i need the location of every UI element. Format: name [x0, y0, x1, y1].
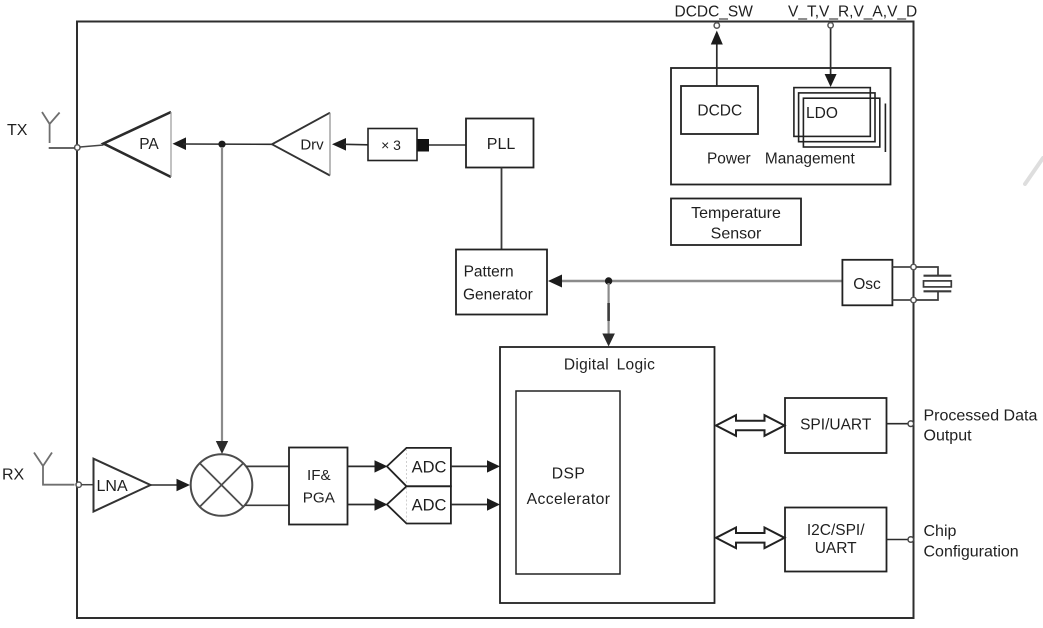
- wire RX port to LNA: [82, 484, 94, 486]
- wire V pins to LDO: [830, 28, 832, 75]
- Digital Logic box: [500, 347, 715, 603]
- output port circle: [908, 421, 914, 427]
- arrow into PA: [173, 137, 187, 150]
- junction node: [218, 141, 225, 148]
- svg-text:I2C/SPI/: I2C/SPI/: [807, 522, 865, 539]
- svg-text:Generator: Generator: [463, 287, 533, 304]
- svg-text:Power Management: Power Management: [707, 151, 855, 168]
- wire DCDC to DCDC_SW pin: [716, 44, 718, 86]
- wire TX port to PA: [80, 145, 104, 147]
- Temperature Sensor box: [671, 199, 801, 246]
- wire Osc to Pattern Generator: [559, 280, 842, 282]
- wire junction down to Digital Logic: [607, 283, 609, 335]
- wire ADC1 to Digital Logic: [451, 465, 489, 467]
- svg-text:RX: RX: [2, 467, 25, 484]
- wire ADC2 to Digital Logic: [451, 504, 489, 506]
- wire IF PGA to ADC2: [348, 504, 378, 506]
- op-amp PA: [104, 112, 172, 177]
- DCDC box: [681, 86, 758, 134]
- Osc box: [842, 260, 892, 306]
- svg-text:Configuration: Configuration: [924, 544, 1019, 561]
- junction node on Osc wire: [605, 277, 612, 284]
- svg-text:LDO: LDO: [806, 105, 838, 122]
- crystal X1: [916, 267, 951, 300]
- svg-text:Temperature: Temperature: [691, 205, 781, 222]
- op-amp Drv: [272, 113, 330, 176]
- svg-text:UART: UART: [815, 540, 857, 557]
- wire I2C/SPI/UART to config port: [887, 539, 909, 541]
- ADC 2: [387, 486, 451, 523]
- Power Management box: [671, 68, 891, 185]
- I2C/SPI/UART box: [785, 508, 887, 572]
- wire antenna to TX port: [49, 147, 75, 149]
- faint smudge mark: [1025, 158, 1043, 184]
- svg-text:DSP: DSP: [552, 465, 585, 482]
- svg-text:LNA: LNA: [97, 478, 128, 495]
- IF PGA box: [289, 448, 348, 525]
- ADC 1: [387, 448, 451, 486]
- Osc stub bottom: [893, 299, 911, 301]
- multiplier x3 box: [368, 129, 417, 161]
- svg-text:Output: Output: [924, 428, 973, 445]
- wire Drv to PA: [183, 143, 272, 145]
- wire PLL to Pattern Generator: [501, 168, 503, 250]
- DSP Accelerator box: [516, 391, 620, 574]
- svg-text:Drv: Drv: [300, 137, 324, 154]
- wire junction down to mixer: [221, 147, 223, 443]
- svg-text:Digital Logic: Digital Logic: [564, 357, 655, 374]
- wire square to PLL: [429, 144, 466, 146]
- config port circle: [908, 537, 914, 543]
- arrow into Digital Logic: [602, 334, 615, 347]
- arrow LNA to mixer: [151, 484, 179, 486]
- chip boundary: [77, 22, 914, 619]
- svg-text:PGA: PGA: [303, 489, 336, 506]
- wire mixer to IF PGA (I): [246, 465, 289, 467]
- wire SPI/UART to output port: [887, 423, 909, 425]
- svg-text:Accelerator: Accelerator: [527, 491, 611, 508]
- svg-text:× 3: × 3: [381, 137, 401, 153]
- svg-text:Processed Data: Processed Data: [924, 408, 1038, 425]
- svg-text:DCDC: DCDC: [697, 103, 742, 120]
- DCDC_SW port circle: [714, 23, 719, 28]
- svg-text:IF&: IF&: [307, 467, 331, 484]
- svg-text:PLL: PLL: [487, 136, 516, 153]
- arrow x3 to Drv: [332, 138, 346, 151]
- svg-text:DCDC_SW: DCDC_SW: [675, 4, 754, 21]
- Osc stub top: [893, 266, 911, 268]
- Osc port circle bottom: [911, 297, 916, 302]
- Osc port circle top: [911, 264, 916, 269]
- svg-text:SPI/UART: SPI/UART: [800, 417, 872, 434]
- svg-text:PA: PA: [139, 136, 159, 153]
- svg-text:V_T,V_R,V_A,V_D: V_T,V_R,V_A,V_D: [788, 4, 917, 21]
- svg-text:Chip: Chip: [924, 523, 957, 540]
- op-amp LNA: [94, 459, 151, 512]
- double arrow DL to SPI/UART: [716, 415, 785, 436]
- RX antenna: [34, 453, 75, 485]
- arrow into Pattern Generator: [548, 275, 562, 288]
- RX port circle: [76, 482, 81, 487]
- arrow into mixer top: [216, 441, 228, 454]
- svg-text:Pattern: Pattern: [464, 264, 514, 281]
- svg-text:TX: TX: [7, 122, 28, 139]
- LDO stack: [794, 88, 886, 152]
- wire mixer to IF PGA (Q): [245, 504, 289, 506]
- svg-text:Osc: Osc: [853, 276, 881, 293]
- svg-text:Sensor: Sensor: [711, 226, 762, 243]
- filter black square: [418, 139, 430, 152]
- TX port circle: [75, 145, 80, 150]
- V pins port circle: [828, 23, 833, 28]
- svg-text:ADC: ADC: [412, 458, 447, 476]
- Pattern Generator box: [456, 250, 547, 315]
- double arrow DL to I2C/SPI/UART: [716, 528, 785, 549]
- svg-text:ADC: ADC: [412, 497, 447, 515]
- wire IF PGA to ADC1: [348, 465, 378, 467]
- mixer: [191, 454, 253, 516]
- TX antenna: [42, 112, 60, 143]
- SPI/UART box: [785, 398, 887, 453]
- PLL box: [466, 119, 534, 168]
